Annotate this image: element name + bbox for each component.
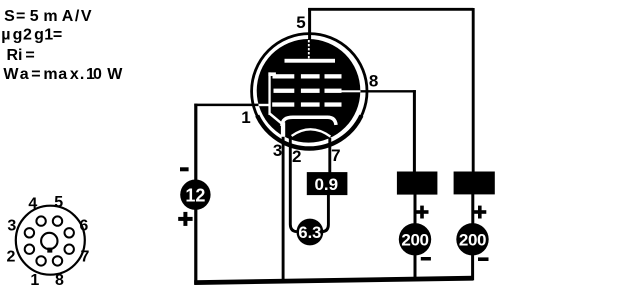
wire: screen branch between rectangle and 200 source <box>414 194 417 225</box>
grid side rail connecting rows to pin 1 <box>268 72 282 123</box>
svg-text:200: 200 <box>459 230 486 249</box>
grid g3 row <box>273 74 342 78</box>
svg-text:5: 5 <box>54 194 63 211</box>
svg-text:3: 3 <box>273 141 282 160</box>
screen branch meter rectangle <box>397 172 438 195</box>
svg-text:12: 12 <box>185 185 205 205</box>
grid g1 row <box>272 102 341 106</box>
socket base diagram outline <box>16 206 85 275</box>
socket pin hole 2 <box>25 245 34 254</box>
wire: right HT branch vertical <box>472 8 475 173</box>
socket center spigot <box>41 233 57 249</box>
heater filament arc <box>292 129 331 136</box>
anode plate bar <box>285 59 336 63</box>
svg-text:2: 2 <box>7 248 16 265</box>
tube V1 internal black disc <box>257 39 361 143</box>
tube V1 envelope ring <box>252 34 367 149</box>
heater current meter 0.9 A <box>307 172 348 195</box>
svg-text:2: 2 <box>292 147 301 166</box>
plus sign of 12 V source <box>178 212 192 226</box>
minus sign of anode supply <box>478 257 489 261</box>
svg-text:8: 8 <box>369 71 378 90</box>
wire: pin 2 heater lead into 6.3 V source <box>290 137 297 232</box>
svg-text:3: 3 <box>7 218 16 235</box>
svg-text:6: 6 <box>79 218 88 235</box>
anode connection to pin 5 <box>308 40 310 59</box>
svg-text:7: 7 <box>331 146 340 165</box>
socket spigot key <box>47 248 52 253</box>
wire: left grid branch vertical <box>194 104 197 285</box>
socket pin hole 6 <box>65 228 74 237</box>
socket pin hole 3 <box>25 228 34 237</box>
svg-text:7: 7 <box>80 248 89 265</box>
svg-text:200: 200 <box>401 230 428 249</box>
socket pin hole 8 <box>53 256 62 265</box>
svg-text:5: 5 <box>296 13 305 32</box>
socket pin hole 7 <box>65 245 74 254</box>
pin 1 wire through disc <box>259 104 270 106</box>
plus sign of screen supply <box>416 206 429 219</box>
cathode <box>282 117 336 126</box>
pin 8 wire through disc <box>342 90 361 92</box>
svg-text:µg2g1=: µg2g1= <box>1 26 62 43</box>
wire: pin 1 grid wire <box>194 104 259 107</box>
minus sign of 12 V source <box>180 167 189 171</box>
wire: screen branch vertical upper <box>413 90 416 172</box>
svg-text:Ri=: Ri= <box>7 47 35 64</box>
wire: pin 8 screen-grid wire to branch <box>358 90 416 92</box>
screen supply 200 V <box>399 223 431 255</box>
anode supply 200 V <box>456 223 488 255</box>
wire: anode branch between rectangle and 200 source <box>471 194 474 224</box>
grid bias source 12 V <box>180 180 210 210</box>
wire: bottom common rail <box>194 278 473 282</box>
svg-text:8: 8 <box>55 272 64 288</box>
svg-text:1: 1 <box>241 108 250 127</box>
plus sign of anode supply <box>473 206 486 219</box>
wire: anode top wire from pin 5 to HT rail <box>308 8 473 11</box>
grid g2 row <box>274 89 342 93</box>
minus sign of screen supply <box>421 257 431 261</box>
heater supply 6.3 V <box>297 219 324 246</box>
svg-text:4: 4 <box>28 196 37 213</box>
svg-text:6.3: 6.3 <box>298 224 321 242</box>
tube envelope bottom arc reinforcement <box>257 116 361 149</box>
svg-text:1: 1 <box>30 272 39 288</box>
socket pin hole 5 <box>53 216 62 225</box>
svg-text:0.9: 0.9 <box>314 175 338 194</box>
socket pin hole 1 <box>36 256 45 265</box>
anode branch meter rectangle <box>454 172 495 195</box>
svg-text:S=5mA/V: S=5mA/V <box>4 8 93 25</box>
socket pin hole 4 <box>36 216 45 225</box>
wire: screen branch below 200 source <box>414 255 417 281</box>
wire: pin 3 cathode lead down to rail <box>282 133 285 283</box>
wire: anode branch below 200 source <box>471 255 474 280</box>
wire: pin 7 heater lead to 0.9 A box <box>328 138 331 173</box>
wire: pin 7 heater lead from 0.9 A box into 6.3 V source <box>322 195 328 232</box>
pin 3 cathode lead through disc <box>281 122 285 137</box>
wire: pin 5 lead <box>308 8 311 42</box>
